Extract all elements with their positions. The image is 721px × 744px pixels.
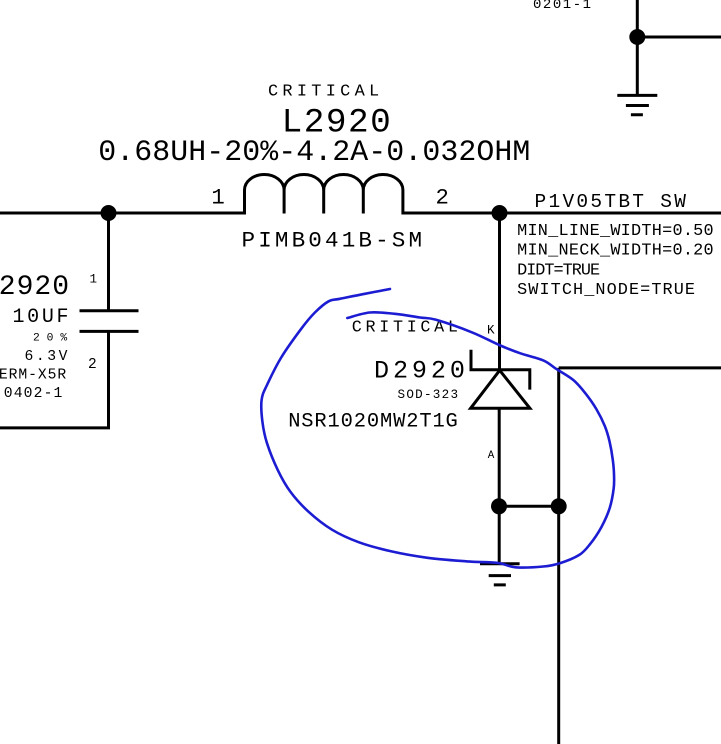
wire: anode node down to ground: [498, 506, 501, 564]
svg-text:K: K: [487, 324, 495, 338]
wire: right rail horizontal to right edge: [559, 366, 721, 369]
wire: D2920 cathode from junction down: [498, 213, 501, 370]
diode D2920 schottky cathode bar: [471, 350, 530, 390]
wire: top-right horizontal to right edge: [637, 36, 721, 39]
ground symbol (top-right): [617, 95, 657, 114]
wire: C2920 pin2 down and left to edge: [0, 331, 109, 428]
svg-text:0201-1: 0201-1: [533, 0, 593, 13]
svg-text:2: 2: [88, 357, 97, 373]
svg-text:CERM-X5R: CERM-X5R: [0, 367, 67, 383]
svg-text:MIN_NECK_WIDTH=0.20: MIN_NECK_WIDTH=0.20: [517, 242, 714, 261]
junction dot right rail: [551, 498, 567, 514]
wire: right rail vertical to bottom edge: [557, 368, 560, 744]
svg-text:1: 1: [211, 185, 224, 211]
blue pen annotation circling D2920: [261, 289, 614, 568]
svg-text:CRITICAL: CRITICAL: [268, 83, 384, 102]
svg-text:NSR1020MW2T1G: NSR1020MW2T1G: [288, 410, 459, 433]
junction dot at node P1V05TBT_SW / D2920 cathode: [492, 205, 508, 221]
svg-text:20%: 20%: [33, 333, 74, 345]
svg-text:10UF: 10UF: [13, 306, 72, 329]
wire: top-right vertical from top edge to ground: [636, 0, 639, 95]
svg-text:6.3V: 6.3V: [25, 349, 71, 365]
capacitor C2920 top plate: [80, 309, 139, 312]
wire: net P1V05TBT_SW horizontal left segment: [0, 212, 246, 215]
junction dot at node P1V05TBT_SW / C2920 pin1: [101, 205, 117, 221]
svg-text:PIMB041B-SM: PIMB041B-SM: [242, 228, 426, 254]
svg-text:DIDT=TRUE: DIDT=TRUE: [517, 262, 600, 281]
wire: anode node to right rail: [499, 505, 559, 508]
ground symbol (bottom): [480, 564, 520, 585]
wire: net P1V05TBT_SW horizontal right segment: [402, 212, 721, 215]
svg-text:C2920: C2920: [0, 272, 70, 303]
capacitor C2920 bottom plate: [80, 330, 139, 333]
svg-text:D2920: D2920: [374, 356, 469, 385]
svg-text:2: 2: [436, 185, 449, 211]
junction dot anode node: [491, 498, 507, 514]
wire: C2920 pin1 from junction down to plate: [107, 213, 110, 311]
junction dot top-right: [629, 29, 645, 45]
svg-text:0.68UH-20%-4.2A-0.032OHM: 0.68UH-20%-4.2A-0.032OHM: [98, 135, 530, 169]
svg-text:0402-1: 0402-1: [4, 386, 64, 402]
svg-text:SWITCH_NODE=TRUE: SWITCH_NODE=TRUE: [517, 281, 696, 300]
svg-text:MIN_LINE_WIDTH=0.50: MIN_LINE_WIDTH=0.50: [517, 222, 714, 241]
diode D2920 triangle: [471, 370, 530, 408]
svg-text:SOD-323: SOD-323: [398, 388, 460, 402]
wire: D2920 anode down: [498, 408, 501, 506]
svg-text:1: 1: [90, 273, 98, 287]
inductor L2920: [245, 174, 403, 214]
svg-text:A: A: [488, 450, 495, 462]
svg-text:P1V05TBT SW: P1V05TBT SW: [535, 191, 689, 213]
